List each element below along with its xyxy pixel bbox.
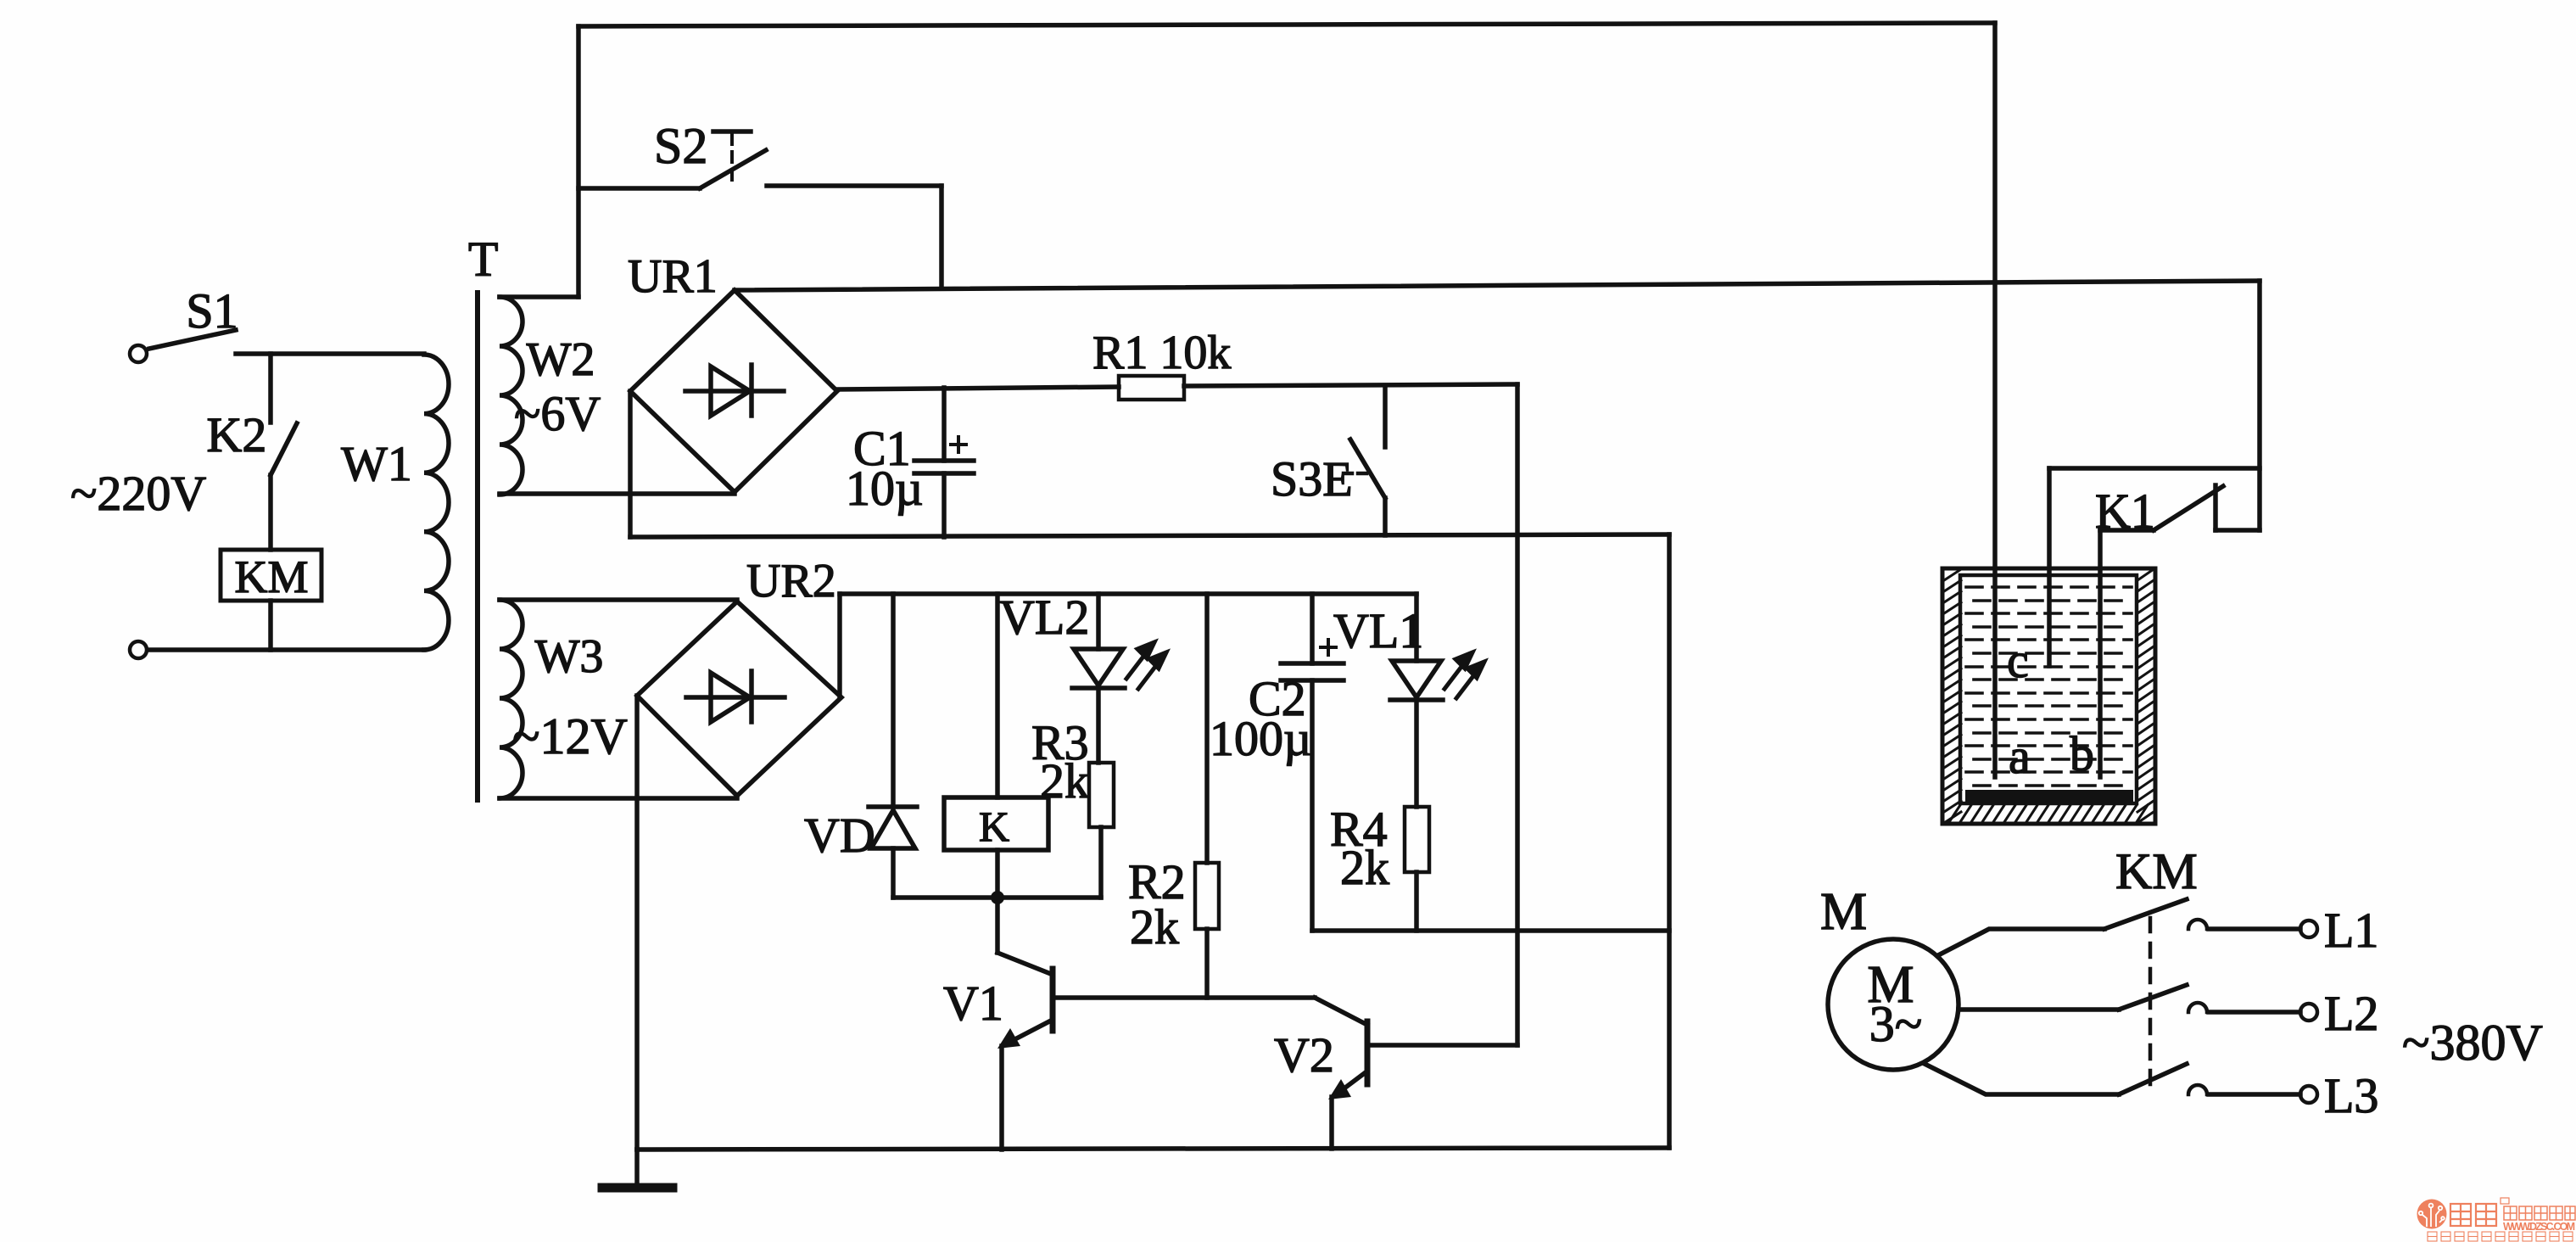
VL1 light arrows [1444, 652, 1484, 698]
phase L3 wire [1925, 1064, 2119, 1094]
svg-text:T: T [468, 232, 498, 287]
char 库 [2476, 1204, 2496, 1226]
switch S3 [1271, 386, 1385, 535]
resistor R4 [1330, 802, 1429, 931]
contactor coil KM box [221, 550, 321, 602]
wire top rail [578, 23, 1995, 26]
wire UR1 left vertex down [628, 391, 633, 537]
switch S2 [578, 118, 942, 188]
KM contact L3 blade [2119, 1064, 2187, 1094]
wire S2 to UR1 output rail [939, 186, 944, 288]
wire plus rail of lower circuit [840, 591, 1417, 596]
winding W1 [341, 355, 449, 650]
TM [2501, 1198, 2509, 1204]
svg-text:2k: 2k [1130, 899, 1179, 954]
phase L1 wire [1938, 929, 2104, 955]
electrolysis tank [1942, 568, 2155, 824]
svg-text:VL1: VL1 [1333, 603, 1423, 658]
LED VL1 [1333, 594, 1443, 807]
winding W2 [500, 297, 601, 495]
electrode c wire [2049, 468, 2260, 666]
svg-text:R1 10k: R1 10k [1092, 327, 1231, 379]
resistor R3 [1031, 715, 1114, 898]
wire bottom ground rail [637, 1148, 1669, 1150]
svg-text:L3: L3 [2324, 1068, 2378, 1123]
wire drop from R1 to V2 collector [1515, 384, 1520, 1045]
electrode b wire [2098, 530, 2103, 777]
KM contact L1 blade [2104, 899, 2187, 929]
KM contact L2 blade [2119, 985, 2187, 1010]
svg-text:UR1: UR1 [628, 250, 718, 303]
wire UR1 right vertex to R1 [837, 387, 1119, 389]
VL2 light arrows [1126, 642, 1166, 689]
svg-text:3~: 3~ [1869, 996, 1922, 1052]
svg-text:L2: L2 [2324, 986, 2378, 1041]
tank bottom sediment band [1965, 790, 2133, 802]
wire rail middle lower [1312, 928, 1669, 933]
svg-text:VL2: VL2 [999, 590, 1089, 645]
svg-text:~220V: ~220V [70, 466, 206, 521]
KM linkage dashed [2149, 918, 2153, 1088]
contactor KM contacts [1925, 843, 2378, 1123]
wire S1 to W1 [236, 351, 424, 356]
svg-text:2k: 2k [1340, 840, 1389, 895]
svg-text:VD: VD [804, 808, 875, 863]
wire KM to bottom terminal [268, 601, 273, 650]
svg-text:KM: KM [234, 551, 308, 602]
bridge rectifier UR2 [637, 555, 841, 796]
wire W2 bottom to UR1 bottom vertex [500, 491, 735, 496]
motor M [1820, 883, 1959, 1070]
svg-text:W2: W2 [527, 333, 595, 386]
winding W3 [500, 600, 737, 798]
wire R1 to corner [1184, 384, 1517, 386]
capacitor C1 [846, 388, 974, 537]
svg-text:a: a [2009, 729, 2031, 784]
relay contact K1 [2095, 484, 2260, 539]
char 维 [2450, 1204, 2471, 1226]
svg-text:~380V: ~380V [2402, 1015, 2543, 1071]
relay contact K2 [207, 354, 297, 550]
terminal L3 [2300, 1086, 2317, 1103]
wire UR2 left vertex down to ground rail [634, 696, 640, 1150]
watermark logo [2417, 1198, 2576, 1241]
svg-text:c: c [2007, 633, 2029, 688]
svg-text:W3: W3 [535, 630, 604, 683]
LED VL2 [999, 590, 1125, 763]
terminal L2 [2300, 1004, 2317, 1021]
wire left vertical from top rail to W2 [576, 26, 581, 297]
node junction dot [991, 891, 1004, 904]
electrode a wire from top rail [1992, 23, 1998, 777]
transformer core T [468, 232, 498, 800]
svg-text:S1: S1 [186, 283, 237, 338]
svg-text:S2: S2 [654, 118, 707, 174]
svg-text:UR2: UR2 [746, 555, 836, 607]
switch S1 [130, 283, 238, 362]
svg-text:K: K [979, 803, 1009, 850]
svg-text:K2: K2 [207, 407, 267, 462]
svg-text:b: b [2070, 726, 2094, 781]
resistor R1 [1092, 327, 1231, 400]
svg-text:W1: W1 [341, 436, 412, 491]
tank liquid [1966, 587, 2132, 786]
svg-text:~12V: ~12V [512, 708, 628, 764]
capacitor C2 [1210, 594, 1344, 931]
bottom slogan chars [2428, 1232, 2573, 1241]
svg-text:100µ: 100µ [1210, 711, 1311, 766]
svg-text:L1: L1 [2324, 903, 2378, 958]
wire UR2 right vertex up to plus rail [837, 594, 842, 697]
wire VD-K-R3 bottom link [893, 895, 1101, 900]
svg-text:S3E: S3E [1271, 451, 1353, 506]
svg-text:2k: 2k [1040, 753, 1089, 808]
svg-text:WWW.DZSC.COM: WWW.DZSC.COM [2503, 1221, 2575, 1233]
wire negative rail mid [630, 534, 1669, 537]
svg-text:V2: V2 [1274, 1027, 1334, 1083]
relay coil K [944, 594, 1048, 898]
svg-text:K1: K1 [2095, 484, 2155, 539]
bridge rectifier UR1 [628, 250, 837, 492]
wire right vertical of negative rail [1667, 534, 1672, 1148]
wire UR1 top vertex to K1 [735, 281, 2260, 290]
svg-text:M: M [1820, 883, 1867, 941]
diode VD [804, 594, 917, 898]
terminal lower left [130, 641, 147, 658]
svg-text:V1: V1 [943, 976, 1003, 1031]
transistor V1 [943, 898, 1315, 1150]
resistor R2 [1128, 594, 1219, 998]
svg-text:KM: KM [2115, 843, 2198, 899]
chars 电子市场网 [2504, 1206, 2575, 1220]
terminal L1 [2300, 920, 2317, 937]
wire K1 drop [2257, 281, 2262, 530]
phase L2 wire [1959, 1007, 2119, 1012]
svg-text:~6V: ~6V [514, 386, 601, 441]
wire bottom terminal to W1 [148, 647, 424, 652]
ground [602, 1150, 673, 1188]
wire W3 bottom to UR2 bottom vertex [500, 796, 737, 801]
transistor V2 [1274, 998, 1517, 1149]
svg-text:10µ: 10µ [846, 461, 923, 516]
